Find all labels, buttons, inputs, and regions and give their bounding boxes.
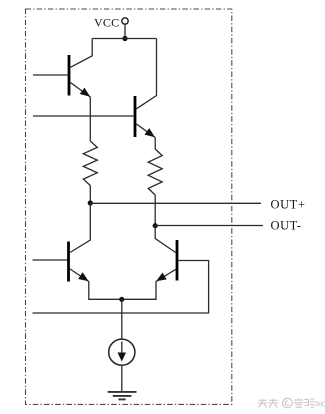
wire Q2 emitter (136, 124, 155, 138)
wire Q4 base loop (33, 261, 209, 314)
wire OUT+ line (90, 202, 261, 204)
wire Q3 emitter (70, 269, 89, 282)
wire R2 bottom lead (154, 195, 156, 226)
wire current source to ground (121, 365, 123, 391)
current source I1 arrowhead (118, 353, 127, 362)
node tail junction (119, 297, 124, 302)
wire Q3 collector (70, 203, 90, 253)
wire Q1 base input (33, 74, 68, 76)
node OUT+ junction (88, 200, 93, 205)
wire Q2 emitter to R2 (154, 137, 156, 149)
Q4 emitter arrow (156, 273, 167, 282)
svg-text:OUT-: OUT- (271, 219, 302, 233)
node VCC rail junction (122, 36, 127, 41)
current source I1 circle (109, 339, 135, 365)
Q1 emitter arrow (80, 88, 90, 97)
ground symbol (108, 392, 137, 400)
wire Q4 collector (155, 226, 175, 253)
Q3 emitter arrow (78, 272, 89, 281)
wire Q3 emitter to tail (89, 281, 122, 299)
watermark 头条@蓝猫360 (258, 398, 315, 408)
transistor Q4 base bar (176, 240, 179, 281)
dash-dot boundary box (26, 9, 232, 404)
Q2 emitter arrow (145, 128, 156, 137)
wire OUT- line (155, 225, 263, 227)
wire Q4 emitter (156, 269, 176, 281)
node OUT- junction (153, 223, 158, 228)
wire Q1 collector (70, 39, 92, 68)
transistor Q1 base bar (68, 55, 71, 96)
current source I1 arrow shaft (121, 342, 123, 356)
svg-text:360: 360 (314, 400, 325, 409)
wire Q2 collector (136, 39, 156, 109)
svg-text:OUT+: OUT+ (271, 198, 306, 212)
svg-text:VCC: VCC (94, 15, 119, 29)
wire Q1 emitter (70, 83, 90, 98)
wire R1 bottom lead (89, 186, 91, 204)
wire Q2 base input (33, 115, 134, 117)
wire tail to current source (121, 299, 123, 339)
wire Q3 base input (33, 259, 68, 261)
transistor Q3 base bar (67, 242, 70, 282)
wire Q1 emitter to R1 (89, 97, 91, 141)
transistor Q2 base bar (134, 96, 137, 137)
wire VCC rail (92, 38, 156, 40)
wire Q4 emitter to tail (122, 281, 156, 299)
resistor R1 (83, 141, 97, 186)
wire VCC stub (124, 24, 126, 38)
VCC terminal circle (122, 18, 128, 24)
resistor R2 (148, 149, 162, 195)
